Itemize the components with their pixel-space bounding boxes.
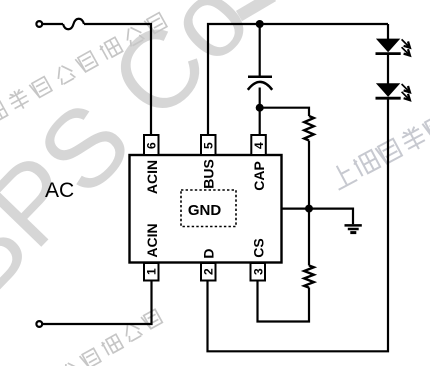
op-amp U1 IC body	[130, 155, 282, 263]
svg-text:4: 4	[252, 142, 266, 149]
svg-text:BUS: BUS	[201, 159, 217, 189]
wire R1 to gnd node	[308, 141, 310, 209]
svg-text:6: 6	[145, 142, 159, 149]
junction node cap bottom	[256, 104, 264, 112]
svg-text:D: D	[201, 248, 217, 258]
wire node to resistor R1	[260, 108, 309, 116]
watermark partial giant letter stroke top-right	[239, 0, 273, 16]
pin 4 box	[251, 135, 265, 155]
pin 5 box	[201, 135, 216, 155]
watermark chinese company name line right	[328, 114, 430, 189]
svg-text:5: 5	[202, 142, 216, 149]
wire between LEDs	[387, 54, 389, 84]
GND dashed box	[181, 190, 236, 227]
wire R2 to CS pin 3	[258, 281, 310, 322]
svg-text:ACIN: ACIN	[144, 160, 160, 194]
svg-text:GND: GND	[188, 202, 222, 219]
resistor R1	[304, 116, 314, 141]
pin 1 box	[144, 263, 159, 281]
wire LED column top	[387, 24, 389, 39]
wire from top terminal to fuse	[43, 23, 63, 25]
wire gnd node to resistor R2	[308, 209, 310, 266]
junction node cap top	[256, 20, 264, 28]
fuse F1	[63, 19, 84, 30]
watermark giant BPS Co text	[0, 0, 273, 323]
svg-text:CAP: CAP	[251, 161, 267, 191]
wire pin1 to bottom terminal	[43, 281, 152, 324]
wire pin5 up and right to LED column	[208, 24, 388, 135]
LED D1	[376, 39, 410, 56]
resistor R2	[304, 266, 314, 288]
wire node to pin 4	[259, 108, 261, 135]
watermark chinese company name line bottom-left	[60, 309, 162, 366]
terminal bottom-left AC input	[36, 321, 42, 327]
ground symbol	[345, 225, 362, 232]
wire gnd node to ground symbol	[309, 209, 353, 225]
svg-text:CS: CS	[250, 238, 266, 257]
svg-text:2: 2	[202, 268, 216, 275]
svg-text:1: 1	[145, 268, 159, 275]
pin 3 box	[251, 263, 266, 281]
wire junction down to capacitor	[259, 24, 261, 76]
pin 2 box	[201, 263, 216, 281]
watermark chinese company name line top-left	[0, 13, 167, 125]
wire fuse to pin 6	[84, 24, 151, 135]
terminal top-left AC input	[36, 21, 42, 27]
LED D2	[376, 83, 410, 100]
svg-text:ACIN: ACIN	[144, 223, 160, 257]
GND net line from dashed box	[236, 208, 309, 210]
wire pin 2 D to bottom rail to LED column	[208, 98, 389, 351]
wire capacitor to node	[259, 88, 261, 108]
svg-text:3: 3	[251, 268, 265, 275]
svg-text:AC: AC	[45, 179, 74, 202]
pin 6 box	[144, 135, 159, 155]
capacitor C1	[248, 77, 272, 90]
junction node gnd net	[305, 205, 313, 213]
